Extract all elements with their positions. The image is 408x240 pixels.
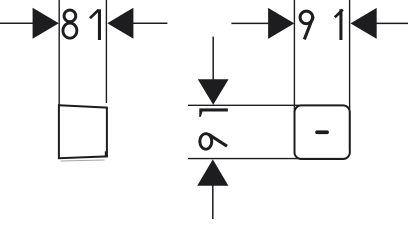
wire extension line right (81) bbox=[105, 0, 107, 103]
wire leader below 16 dimension bbox=[212, 186, 214, 220]
wire leader right of 91 dimension bbox=[376, 22, 408, 24]
left plate outline (side view) bbox=[59, 105, 107, 158]
digit 8 of label 81 bbox=[63, 10, 77, 38]
wire extension line left (81) bbox=[58, 0, 60, 105]
wire extension line left (91) bbox=[293, 0, 295, 150]
left plate faint lower edge bbox=[61, 160, 105, 161]
arrow left-pointing (81 right) bbox=[107, 8, 133, 39]
left plate right-edge nub bbox=[105, 151, 108, 157]
digit 1 of label 91 bbox=[335, 9, 343, 40]
wire leader left of 81 dimension bbox=[0, 22, 34, 24]
arrow left-pointing (91 right) bbox=[351, 8, 377, 39]
digit 9 of label 91 bbox=[300, 11, 313, 39]
digit 1 of label 81 bbox=[90, 9, 101, 40]
wire leader above 16 dimension bbox=[212, 37, 214, 80]
wire extension line right (91) bbox=[349, 0, 351, 150]
arrow right-pointing (91 left) bbox=[268, 8, 294, 39]
wire extension line top (16) bbox=[188, 104, 344, 106]
arrow down-pointing (16 top) bbox=[198, 79, 229, 105]
wire leader right of 81 dimension bbox=[133, 22, 167, 24]
wire leader left of 91 dimension bbox=[231, 22, 268, 24]
arrow up-pointing (16 bottom) bbox=[197, 159, 228, 185]
digit 6 of rotated label 16 bbox=[200, 134, 227, 150]
digit 1 of rotated label 16 bbox=[199, 108, 228, 117]
arrow right-pointing (81 left) bbox=[33, 8, 59, 39]
button dash on right plate bbox=[315, 130, 329, 134]
right plate rounded outline (front view) bbox=[295, 105, 350, 159]
wire extension line bottom (16) bbox=[188, 158, 344, 160]
